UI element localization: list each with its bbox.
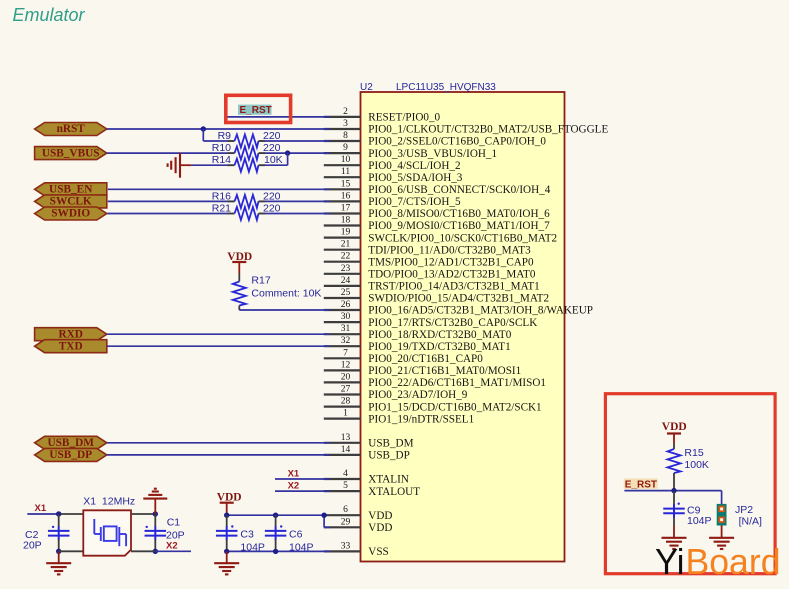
wire USB_EN to pin 15 bbox=[108, 188, 330, 190]
svg-text:220: 220 bbox=[263, 190, 281, 202]
svg-text:TMS/PIO0_12/AD1/CT32B1_CAP0: TMS/PIO0_12/AD1/CT32B1_CAP0 bbox=[368, 256, 534, 268]
svg-text:3: 3 bbox=[343, 119, 348, 129]
pin 10 PIO0_4/SCL/IOH_2 bbox=[324, 155, 461, 172]
ground (rotated, at R14) bbox=[168, 153, 192, 178]
pin 14 USB_DP bbox=[324, 445, 410, 462]
pin 27 PIO0_23/AD7/IOH_9 bbox=[324, 385, 468, 402]
svg-text:PIO0_3/USB_VBUS/IOH_1: PIO0_3/USB_VBUS/IOH_1 bbox=[368, 148, 497, 160]
resistor R10 220 bbox=[212, 142, 330, 160]
svg-text:11: 11 bbox=[341, 167, 350, 177]
svg-text:12MHz: 12MHz bbox=[102, 496, 135, 508]
jumper JP2 [N/A] bbox=[717, 504, 762, 528]
svg-text:PIO0_1/CLKOUT/CT32B0_MAT2/USB_: PIO0_1/CLKOUT/CT32B0_MAT2/USB_FTOGGLE bbox=[368, 124, 608, 136]
pin 24 TRST/PIO0_14/AD3/CT32B1_MAT1 bbox=[324, 276, 540, 293]
pin 1 PIO1_19/nDTR/SSEL1 bbox=[324, 409, 474, 426]
node junction C2 top bbox=[56, 511, 61, 516]
svg-text:PIO0_17/RTS/CT32B0_CAP0/SCLK: PIO0_17/RTS/CT32B0_CAP0/SCLK bbox=[368, 317, 537, 329]
node junction C2 bottom bbox=[56, 549, 61, 554]
wire C2 to crystal bottom bbox=[59, 550, 84, 552]
ground (below C2) bbox=[46, 551, 71, 574]
svg-text:12: 12 bbox=[341, 360, 351, 370]
svg-text:PIO0_5/SDA/IOH_3: PIO0_5/SDA/IOH_3 bbox=[368, 172, 463, 184]
svg-text:27: 27 bbox=[341, 385, 351, 395]
port RXD bbox=[35, 328, 107, 341]
resistor R16 220 bbox=[108, 190, 330, 208]
svg-text:PIO0_18/RXD/CT32B0_MAT0: PIO0_18/RXD/CT32B0_MAT0 bbox=[368, 329, 511, 341]
power VDD (above C3) bbox=[217, 491, 242, 515]
svg-text:X1: X1 bbox=[288, 469, 300, 480]
svg-text:PIO0_19/TXD/CT32B0_MAT1: PIO0_19/TXD/CT32B0_MAT1 bbox=[368, 341, 510, 353]
wire TXD to pin 32 bbox=[107, 345, 330, 347]
svg-text:X1: X1 bbox=[83, 496, 96, 508]
net label X1 bbox=[288, 469, 300, 480]
svg-text:20: 20 bbox=[341, 372, 351, 382]
svg-text:USB_DM: USB_DM bbox=[368, 438, 413, 450]
svg-text:C3: C3 bbox=[240, 529, 254, 541]
pin 17 PIO0_8/MISO0/CT16B0_MAT0/IOH_6 bbox=[324, 204, 550, 221]
pin 20 PIO0_22/AD6/CT16B1_MAT1/MISO1 bbox=[324, 372, 546, 389]
ground (inverted, above C1) bbox=[143, 489, 167, 514]
svg-text:Emulator: Emulator bbox=[13, 5, 86, 25]
pin 26 PIO0_16/AD5/CT32B1_MAT3/IOH_8/WAKEUP bbox=[324, 300, 593, 317]
svg-text:PIO0_2/SSEL0/CT16B0_CAP0/IOH_0: PIO0_2/SSEL0/CT16B0_CAP0/IOH_0 bbox=[368, 136, 546, 148]
svg-text:PIO0_7/CTS/IOH_5: PIO0_7/CTS/IOH_5 bbox=[368, 196, 461, 208]
port USB_DP bbox=[35, 448, 107, 461]
wire USB_VBUS to R10 bbox=[107, 152, 228, 154]
svg-text:26: 26 bbox=[341, 300, 351, 310]
svg-text:PIO1_15/DCD/CT16B0_MAT2/SCK1: PIO1_15/DCD/CT16B0_MAT2/SCK1 bbox=[368, 401, 541, 413]
svg-text:E_RST: E_RST bbox=[240, 105, 272, 116]
wire crystal to C1 top bbox=[131, 513, 155, 515]
svg-text:VDD: VDD bbox=[368, 522, 392, 534]
port USB_VBUS bbox=[35, 147, 107, 160]
pin 15 PIO0_6/USB_CONNECT/SCK0/IOH_4 bbox=[324, 179, 551, 196]
svg-text:LPC11U35_HVQFN33: LPC11U35_HVQFN33 bbox=[396, 82, 496, 93]
svg-text:PIO0_21/CT16B1_MAT0/MOSI1: PIO0_21/CT16B1_MAT0/MOSI1 bbox=[368, 365, 521, 377]
pin 8 PIO0_2/SSEL0/CT16B0_CAP0/IOH_0 bbox=[324, 131, 547, 148]
red annotation box around E_RST bbox=[226, 95, 291, 122]
svg-text:6: 6 bbox=[343, 505, 348, 515]
wire R17 to pin 26 bbox=[239, 309, 330, 311]
svg-text:10: 10 bbox=[341, 155, 351, 165]
svg-text:31: 31 bbox=[341, 324, 351, 334]
svg-text:29: 29 bbox=[341, 517, 351, 527]
port USB_EN bbox=[35, 183, 107, 196]
svg-text:13: 13 bbox=[341, 433, 351, 443]
svg-text:PIO0_9/MOSI0/CT16B0_MAT1/IOH_7: PIO0_9/MOSI0/CT16B0_MAT1/IOH_7 bbox=[368, 220, 550, 232]
svg-text:E_RST: E_RST bbox=[625, 480, 657, 491]
wire X1 to crystal bbox=[27, 513, 83, 515]
pin 4 XTALIN bbox=[324, 469, 409, 486]
svg-text:8: 8 bbox=[343, 131, 348, 141]
port USB_DM bbox=[35, 436, 107, 449]
svg-text:1: 1 bbox=[343, 409, 348, 419]
svg-text:VDD: VDD bbox=[227, 251, 252, 263]
IC U2 LPC11U35_HVQFN33 body bbox=[361, 92, 565, 562]
svg-text:R17: R17 bbox=[251, 275, 270, 287]
svg-text:TXD: TXD bbox=[59, 340, 83, 352]
svg-text:33: 33 bbox=[341, 541, 351, 551]
net label E_RST (highlighted, boxed) bbox=[238, 105, 272, 117]
svg-text:PIO1_19/nDTR/SSEL1: PIO1_19/nDTR/SSEL1 bbox=[368, 413, 474, 425]
svg-text:28: 28 bbox=[341, 397, 351, 407]
svg-text:9: 9 bbox=[343, 143, 348, 153]
svg-text:RESET/PIO0_0: RESET/PIO0_0 bbox=[368, 112, 440, 124]
capacitor C3 104P bbox=[216, 515, 265, 553]
resistor R14 10K bbox=[191, 153, 287, 172]
svg-text:PIO0_23/AD7/IOH_9: PIO0_23/AD7/IOH_9 bbox=[368, 389, 467, 401]
svg-text:X2: X2 bbox=[166, 540, 178, 551]
pin 7 PIO0_20/CT16B1_CAP0 bbox=[324, 348, 483, 365]
svg-text:Yi: Yi bbox=[655, 541, 685, 582]
power VDD (above R15) bbox=[662, 421, 687, 443]
svg-text:U2: U2 bbox=[360, 82, 373, 93]
svg-text:JP2: JP2 bbox=[735, 504, 753, 516]
svg-text:TDO/PIO0_13/AD2/CT32B1_MAT0: TDO/PIO0_13/AD2/CT32B1_MAT0 bbox=[368, 269, 536, 281]
node junction C1 bottom bbox=[153, 549, 158, 554]
svg-text:SWCLK: SWCLK bbox=[50, 196, 92, 208]
node junction C3 bottom bbox=[224, 549, 229, 554]
crystal X1 12MHz bbox=[83, 496, 135, 556]
wire RXD to pin 31 bbox=[107, 333, 330, 335]
pin 32 PIO0_19/TXD/CT32B0_MAT1 bbox=[324, 336, 511, 353]
pin 21 TDI/PIO0_11/AD0/CT32B0_MAT3 bbox=[324, 240, 531, 257]
svg-text:VDD: VDD bbox=[217, 491, 242, 503]
capacitor C9 104P bbox=[663, 491, 711, 538]
svg-text:USB_DM: USB_DM bbox=[47, 437, 94, 449]
svg-text:PIO0_8/MISO0/CT16B0_MAT0/IOH_6: PIO0_8/MISO0/CT16B0_MAT0/IOH_6 bbox=[368, 208, 550, 220]
ground (below JP2) bbox=[709, 526, 734, 550]
node junction R10/R14 bbox=[285, 150, 290, 155]
node junction VDD rail right bbox=[321, 513, 326, 518]
svg-text:nRST: nRST bbox=[57, 123, 86, 135]
capacitor C1 20P bbox=[145, 514, 185, 551]
svg-text:USB_DP: USB_DP bbox=[368, 450, 409, 462]
pin 11 PIO0_5/SDA/IOH_3 bbox=[324, 167, 463, 184]
sheet title "Emulator" bbox=[13, 5, 86, 25]
wire crystal bottom to C1 bottom and X2 stub bbox=[131, 550, 191, 552]
port TXD bbox=[35, 340, 107, 353]
pin 3 PIO0_1/CLKOUT/CT32B0_MAT2/USB_FTOGGLE bbox=[324, 119, 609, 136]
pin 19 SWCLK/PIO0_10/SCK0/CT16B0_MAT2 bbox=[324, 228, 557, 245]
designator U2 bbox=[360, 82, 373, 93]
pin 22 TMS/PIO0_12/AD1/CT32B1_CAP0 bbox=[324, 252, 534, 269]
pin 5 XTALOUT bbox=[324, 481, 420, 498]
svg-text:R15: R15 bbox=[684, 447, 703, 459]
wire junction down to R9 bbox=[202, 129, 204, 141]
svg-text:R10: R10 bbox=[212, 142, 231, 154]
node junction C6 top bbox=[273, 513, 278, 518]
svg-text:Comment: 10K: Comment: 10K bbox=[251, 288, 321, 300]
svg-text:18: 18 bbox=[341, 216, 351, 226]
resistor R21 220 bbox=[107, 203, 330, 221]
svg-text:X1: X1 bbox=[35, 503, 47, 514]
svg-text:104P: 104P bbox=[687, 515, 712, 527]
svg-text:23: 23 bbox=[341, 264, 351, 274]
pin 13 USB_DM bbox=[324, 433, 414, 450]
wire VDD rail to pin 6 and pin 29 bbox=[227, 515, 330, 527]
pin 33 VSS bbox=[324, 541, 389, 558]
capacitor C6 104P bbox=[265, 515, 314, 553]
svg-text:PIO0_20/CT16B1_CAP0: PIO0_20/CT16B1_CAP0 bbox=[368, 353, 483, 365]
power VDD (above R17) bbox=[227, 251, 252, 274]
pin 2 RESET/PIO0_0 bbox=[324, 107, 441, 124]
ground (below C3) bbox=[214, 551, 239, 574]
svg-text:SWDIO: SWDIO bbox=[51, 208, 90, 220]
red annotation box (reset circuit) bbox=[605, 394, 775, 574]
node junction C1 top bbox=[153, 511, 158, 516]
svg-text:15: 15 bbox=[341, 179, 351, 189]
svg-text:PIO0_16/AD5/CT32B1_MAT3/IOH_8/: PIO0_16/AD5/CT32B1_MAT3/IOH_8/WAKEUP bbox=[368, 305, 593, 317]
svg-text:USB_VBUS: USB_VBUS bbox=[42, 147, 100, 159]
svg-text:XTALIN: XTALIN bbox=[368, 474, 409, 486]
pin 29 VDD bbox=[324, 517, 393, 534]
node junction E_RST bbox=[671, 488, 676, 493]
svg-text:220: 220 bbox=[263, 142, 281, 154]
svg-text:C1: C1 bbox=[167, 516, 181, 528]
svg-text:VDD: VDD bbox=[368, 510, 392, 522]
node junction C3 top bbox=[224, 513, 229, 518]
svg-text:7: 7 bbox=[343, 348, 348, 358]
resistor R15 100K bbox=[668, 443, 709, 491]
svg-text:VDD: VDD bbox=[662, 421, 687, 433]
svg-text:PIO0_6/USB_CONNECT/SCK0/IOH_4: PIO0_6/USB_CONNECT/SCK0/IOH_4 bbox=[368, 184, 550, 196]
node junction nRST/R9 bbox=[201, 126, 206, 131]
svg-text:RXD: RXD bbox=[58, 328, 82, 340]
svg-text:19: 19 bbox=[341, 228, 351, 238]
resistor R9 220 bbox=[203, 130, 330, 148]
svg-text:25: 25 bbox=[341, 288, 351, 298]
YiBoard logo bbox=[655, 541, 781, 582]
pin 9 PIO0_3/USB_VBUS/IOH_1 bbox=[324, 143, 497, 160]
svg-text:R21: R21 bbox=[212, 203, 231, 215]
svg-text:10K: 10K bbox=[264, 154, 283, 166]
svg-text:4: 4 bbox=[343, 469, 348, 479]
pin 23 TDO/PIO0_13/AD2/CT32B1_MAT0 bbox=[324, 264, 536, 281]
resistor R17 Comment: 10K bbox=[233, 274, 322, 311]
svg-text:100K: 100K bbox=[684, 459, 709, 471]
value label LPC11U35_HVQFN33 bbox=[396, 82, 496, 93]
pin 25 SWDIO/PIO0_15/AD4/CT32B1_MAT2 bbox=[324, 288, 549, 305]
svg-text:220: 220 bbox=[263, 130, 281, 142]
pin 18 PIO0_9/MOSI0/CT16B0_MAT1/IOH_7 bbox=[324, 216, 550, 233]
wire USB_DP to pin 14 bbox=[107, 454, 330, 456]
svg-text:TDI/PIO0_11/AD0/CT32B0_MAT3: TDI/PIO0_11/AD0/CT32B0_MAT3 bbox=[368, 244, 531, 256]
svg-text:21: 21 bbox=[341, 240, 351, 250]
svg-text:20P: 20P bbox=[23, 540, 42, 552]
svg-text:Board: Board bbox=[686, 541, 781, 582]
svg-text:X2: X2 bbox=[288, 481, 300, 492]
svg-text:220: 220 bbox=[263, 203, 281, 215]
svg-text:R14: R14 bbox=[212, 154, 231, 166]
wire VSS rail to pin 33 bbox=[227, 550, 330, 552]
wire E_RST node bbox=[624, 491, 721, 505]
svg-text:32: 32 bbox=[341, 336, 351, 346]
wire USB_DM to pin 13 bbox=[107, 442, 330, 444]
ground (below C9) bbox=[662, 538, 687, 549]
svg-text:5: 5 bbox=[343, 481, 348, 491]
svg-text:USB_EN: USB_EN bbox=[49, 184, 93, 196]
capacitor C2 20P bbox=[23, 514, 69, 552]
net label E_RST (right) bbox=[624, 479, 658, 491]
pin 30 PIO0_17/RTS/CT32B0_CAP0/SCLK bbox=[324, 312, 537, 329]
svg-text:2: 2 bbox=[343, 107, 348, 117]
svg-text:R9: R9 bbox=[218, 130, 232, 142]
port nRST bbox=[35, 123, 107, 136]
pin 12 PIO0_21/CT16B1_MAT0/MOSI1 bbox=[324, 360, 521, 377]
svg-text:22: 22 bbox=[341, 252, 351, 262]
svg-text:XTALOUT: XTALOUT bbox=[368, 486, 420, 498]
svg-text:SWCLK/PIO0_10/SCK0/CT16B0_MAT2: SWCLK/PIO0_10/SCK0/CT16B0_MAT2 bbox=[368, 232, 557, 244]
svg-text:SWDIO/PIO0_15/AD4/CT32B1_MAT2: SWDIO/PIO0_15/AD4/CT32B1_MAT2 bbox=[368, 293, 549, 305]
port SWCLK bbox=[35, 195, 107, 208]
node junction C6 bottom bbox=[273, 549, 278, 554]
wire nRST to pin 3 bbox=[107, 128, 330, 130]
svg-text:PIO0_22/AD6/CT16B1_MAT1/MISO1: PIO0_22/AD6/CT16B1_MAT1/MISO1 bbox=[368, 377, 546, 389]
svg-text:USB_DP: USB_DP bbox=[49, 449, 92, 461]
port SWDIO bbox=[35, 207, 107, 220]
svg-text:VSS: VSS bbox=[368, 546, 388, 558]
svg-text:C6: C6 bbox=[289, 529, 303, 541]
wire net X2 to pin 5 bbox=[275, 490, 330, 492]
wire net X1 to pin 4 bbox=[275, 478, 330, 480]
net label X2 bbox=[288, 481, 300, 492]
pin 31 PIO0_18/RXD/CT32B0_MAT0 bbox=[324, 324, 512, 341]
svg-text:24: 24 bbox=[341, 276, 351, 286]
svg-text:30: 30 bbox=[341, 312, 351, 322]
pin 16 PIO0_7/CTS/IOH_5 bbox=[324, 191, 461, 208]
net label X2 (crystal) bbox=[166, 540, 178, 551]
svg-text:R16: R16 bbox=[212, 190, 231, 202]
svg-text:14: 14 bbox=[341, 445, 351, 455]
pin 6 VDD bbox=[324, 505, 393, 522]
svg-text:17: 17 bbox=[341, 204, 351, 214]
svg-text:TRST/PIO0_14/AD3/CT32B1_MAT1: TRST/PIO0_14/AD3/CT32B1_MAT1 bbox=[368, 281, 539, 293]
svg-text:16: 16 bbox=[341, 191, 351, 201]
pin 28 PIO1_15/DCD/CT16B0_MAT2/SCK1 bbox=[324, 397, 542, 414]
svg-text:[N/A]: [N/A] bbox=[739, 515, 762, 527]
net label X1 (crystal) bbox=[35, 503, 47, 514]
svg-text:PIO0_4/SCL/IOH_2: PIO0_4/SCL/IOH_2 bbox=[368, 160, 460, 172]
wire E_RST to pin 2 bbox=[227, 116, 330, 118]
